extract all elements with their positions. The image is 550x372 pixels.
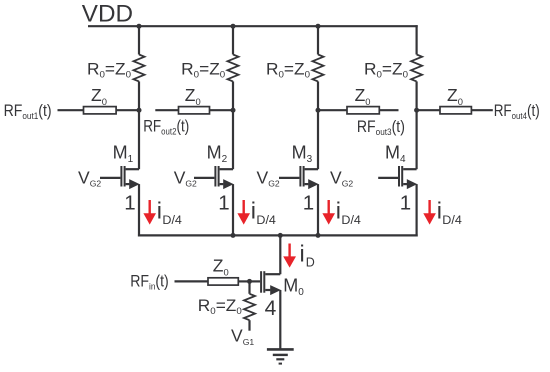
svg-text:i: i	[157, 198, 162, 224]
wire VDD rail	[88, 25, 418, 27]
wire resistor2 to output node	[232, 81, 234, 110]
wire bias resistor to VG1	[248, 320, 250, 331]
wire node4 to Z0 box4	[417, 109, 440, 111]
wire node3 to M3 drain	[317, 110, 319, 169]
node C rail junction col3	[316, 24, 321, 29]
wire Z0 box2 to node2	[210, 109, 234, 111]
wire column1 drop rail to resistor	[138, 26, 140, 54]
wire RFout1 port lead	[58, 109, 84, 111]
ground	[267, 349, 294, 363]
current arrow iD/4 col4	[423, 200, 436, 225]
wire node1 to M1 drain	[138, 110, 140, 169]
svg-text:VDD: VDD	[82, 1, 133, 28]
wire Z0 input box to gate node	[238, 280, 249, 282]
wire resistor4 to output node	[416, 81, 418, 110]
svg-text:D/4: D/4	[256, 213, 276, 227]
svg-text:1: 1	[303, 192, 314, 215]
resistor R0=Z0 #3 zigzag	[313, 55, 324, 82]
svg-text:i: i	[300, 240, 305, 266]
wire bus to M0 drain	[279, 235, 281, 274]
node D output junction col1	[137, 108, 142, 113]
current arrow iD/4 col1	[143, 200, 156, 225]
transistor M0	[250, 271, 281, 295]
svg-text:D/4: D/4	[442, 213, 462, 227]
wire Z0 box1 to node1	[116, 109, 139, 111]
wire column3 drop rail to resistor	[317, 26, 319, 54]
node E output junction col2	[231, 108, 236, 113]
node A rail junction col1	[137, 24, 142, 29]
transistor M3	[279, 166, 319, 189]
svg-text:D/4: D/4	[341, 213, 361, 227]
wire node2 to M2 drain	[232, 110, 234, 169]
resistor R0=Z0 #4 zigzag	[411, 55, 422, 82]
node F output junction col3	[316, 108, 321, 113]
wire M3 source to bus	[317, 184, 319, 236]
svg-text:R0=Z0: R0=Z0	[364, 60, 408, 79]
node J bus junction col3	[316, 233, 321, 238]
wire gate node to bias resistor	[248, 281, 250, 293]
wire RFout2 port lead	[155, 109, 178, 111]
transistor M2	[194, 166, 234, 189]
current arrow iD	[283, 244, 296, 268]
node G output junction col4	[414, 108, 419, 113]
transmission line Z0 box output1	[84, 107, 117, 114]
transmission line Z0 box input	[208, 278, 238, 285]
wire resistor3 to output node	[317, 81, 319, 110]
svg-text:i: i	[336, 198, 341, 224]
current arrow iD/4 col3	[322, 200, 335, 225]
wire column2 drop rail to resistor	[232, 26, 234, 54]
wire Z0 box4 to RFout4 label	[471, 109, 492, 111]
node B rail junction col2	[231, 24, 236, 29]
node I bus junction M0 drain	[278, 233, 283, 238]
node K input gate junction	[247, 279, 252, 284]
wire column4 drop rail to resistor	[416, 25, 418, 54]
wire resistor1 to output node	[138, 81, 140, 110]
svg-text:R0=Z0: R0=Z0	[87, 60, 131, 79]
svg-text:i: i	[437, 198, 442, 224]
svg-text:1: 1	[124, 192, 135, 215]
wire node3 to Z0 box3	[318, 109, 347, 111]
wire node4 to M4 drain	[416, 110, 418, 169]
svg-text:R0=Z0: R0=Z0	[266, 60, 310, 79]
wire Z0 box3 RFout3 port lead	[379, 109, 398, 111]
transmission line Z0 box output3	[347, 107, 379, 114]
resistor R0=Z0 bias zigzag	[244, 294, 255, 320]
wire M1 source to bus	[138, 184, 140, 236]
transmission line Z0 box output4	[440, 107, 471, 114]
wire M0 source to ground	[279, 290, 281, 350]
resistor R0=Z0 #2 zigzag	[228, 55, 239, 82]
svg-text:4: 4	[265, 297, 277, 320]
wire common source bus	[138, 234, 418, 236]
svg-text:R0=Z0: R0=Z0	[181, 60, 225, 79]
svg-text:i: i	[251, 198, 256, 224]
transmission line Z0 box output2	[179, 107, 210, 114]
node H bus junction col2	[231, 233, 236, 238]
wire M4 source to bus	[416, 184, 418, 236]
wire RFin lead to Z0 box	[175, 280, 209, 282]
resistor R0=Z0 #1 zigzag	[134, 55, 145, 82]
svg-text:1: 1	[400, 192, 411, 215]
svg-text:1: 1	[218, 192, 229, 215]
svg-text:D/4: D/4	[162, 213, 182, 227]
transistor M1	[100, 166, 140, 189]
current arrow iD/4 col2	[237, 200, 250, 225]
wire M2 source to bus	[232, 184, 234, 236]
svg-text:D: D	[306, 256, 315, 270]
svg-text:R0=Z0: R0=Z0	[198, 297, 242, 316]
transistor M4	[378, 166, 417, 189]
